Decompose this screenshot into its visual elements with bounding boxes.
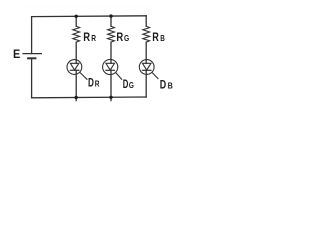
svg-text:E: E: [13, 48, 20, 61]
LED D_G circle: [103, 59, 118, 74]
wire branch 3 resistor to LED: [145, 42, 147, 63]
LED D_R leader line: [80, 73, 87, 80]
wire branch 2 top stub: [110, 16, 112, 26]
wire branch 1 LED to bottom rail: [75, 70, 77, 100]
battery E top plate: [23, 53, 41, 55]
wire left vertical (battery to bottom rail): [31, 58, 33, 98]
resistor RR zigzag: [73, 26, 80, 42]
junction node branch1/top rail: [75, 15, 78, 18]
LED D_G cathode bar: [106, 69, 115, 71]
svg-text:D: D: [160, 78, 167, 92]
LED D_G leader line: [116, 73, 122, 80]
resistor RG zigzag: [108, 26, 115, 42]
junction node branch1/bottom rail: [75, 96, 78, 99]
wire branch 2 LED to bottom rail: [110, 70, 112, 100]
LED D_G triangle: [106, 63, 115, 70]
wire left vertical (top, to battery): [31, 17, 33, 54]
LED D_B circle: [139, 60, 154, 75]
LED D_R cathode bar: [70, 69, 79, 71]
svg-text:G: G: [129, 80, 134, 90]
svg-text:R: R: [116, 30, 123, 44]
wire branch 2 resistor to LED: [110, 42, 112, 63]
wire branch 1 top stub: [75, 16, 77, 26]
LED D_B cathode bar: [142, 69, 151, 71]
svg-text:G: G: [124, 33, 129, 43]
svg-text:D: D: [88, 76, 94, 90]
LED D_R circle: [67, 60, 82, 75]
svg-text:D: D: [123, 77, 129, 91]
wire bottom rail: [32, 96, 147, 99]
wire right vertical (branch 3 top stub): [145, 16, 147, 26]
LED D_B leader line: [152, 73, 158, 79]
svg-text:B: B: [160, 33, 165, 43]
svg-text:R: R: [91, 33, 96, 43]
svg-text:R: R: [152, 30, 159, 44]
LED D_R triangle: [70, 63, 79, 70]
battery E bottom plate: [28, 57, 35, 59]
svg-text:B: B: [168, 81, 173, 91]
svg-text:R: R: [95, 79, 100, 89]
junction node branch2/top rail: [109, 14, 112, 17]
svg-text:R: R: [83, 30, 90, 44]
wire branch 1 resistor to LED: [75, 42, 77, 63]
resistor RB zigzag: [143, 26, 150, 42]
wire top rail: [32, 15, 147, 18]
LED D_B triangle: [142, 63, 151, 70]
wire branch 3 LED to bottom rail: [145, 70, 147, 97]
faint scan artifact line: [22, 6, 158, 8]
junction node branch2/bottom rail: [109, 96, 112, 99]
